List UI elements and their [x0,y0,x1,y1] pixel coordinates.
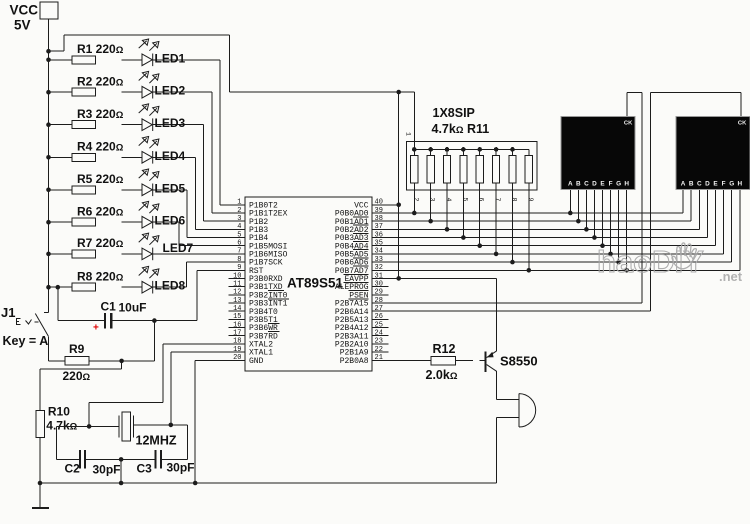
svg-text:11: 11 [233,280,241,288]
svg-text:5: 5 [461,198,468,202]
resistor R7 220 [72,236,124,258]
crystal X1 12MHZ [119,412,177,448]
svg-text:4: 4 [445,198,452,202]
svg-text:1X8SIP: 1X8SIP [433,106,475,120]
node junction rail row 2 [46,90,51,95]
wire pin 20 GND to ground rail [195,360,245,483]
svg-text:10: 10 [233,272,241,280]
svg-text:13: 13 [233,297,241,305]
node junction pin 31 [396,276,401,281]
node junction display1 pin B [576,219,581,224]
transistor Q1 S8550 [486,351,538,372]
svg-text:.net: .net [719,269,743,284]
wire pin 19 XTAL1 to crystal right [171,352,245,425]
wire P0.5/AD5 bus row [372,183,724,254]
svg-text:6: 6 [478,198,485,202]
wire C1 to RST pin 9 [112,270,245,320]
svg-text:5V: 5V [14,18,31,33]
svg-text:Key = A: Key = A [3,334,49,348]
svg-text:220Ω: 220Ω [63,369,91,383]
svg-text:18: 18 [233,338,241,346]
wire R12 to Q1 base [455,359,485,361]
node junction R11 pin 5 [461,235,466,240]
svg-text:3: 3 [429,198,436,202]
display U3 (8-segment module) [676,117,750,190]
node junction R9/R10 [119,359,124,364]
svg-text:9: 9 [527,198,534,202]
svg-text:H: H [624,180,629,187]
node junction rail row 6 [46,220,51,225]
svg-text:LED4: LED4 [155,149,186,163]
svg-text:2: 2 [237,207,241,215]
wire P0.3/AD3 bus row [372,183,707,238]
svg-text:F: F [722,180,726,187]
svg-text:VCC: VCC [10,3,39,18]
svg-text:E: E [600,180,605,187]
node junction C1/R9 [152,318,157,323]
node junction display1 pin D [592,235,597,240]
svg-text:B: B [576,180,581,187]
resistor R1 220 [72,42,124,64]
svg-text:20: 20 [233,354,241,362]
wire pin 21 to R12 [372,359,431,361]
svg-text:A: A [568,180,573,187]
switch J1 (Key = A) [1,305,49,361]
LED LED2 [139,71,186,98]
svg-text:GND: GND [249,357,264,366]
svg-text:3: 3 [237,215,241,223]
svg-text:R10: R10 [48,405,70,419]
node junction crystal right [169,423,174,428]
resistor R5 220 [72,172,124,194]
node junction rail row 3 [46,122,51,127]
svg-text:R9: R9 [69,342,85,356]
node junction ground rail C2/C3 [119,481,124,486]
node junction R11 pin 9 [527,268,532,273]
svg-text:C: C [584,180,589,187]
svg-text:10uF: 10uF [119,301,147,315]
wire rail to C1 [58,287,104,320]
resistor R4 220 [72,140,124,162]
svg-text:34: 34 [375,248,383,256]
wire pin 27 to display U3 CK [372,92,741,311]
svg-text:31: 31 [375,272,383,280]
wire C2 to ground junction [85,458,121,460]
wire LED7 row to pin 7 [49,253,246,255]
wire J1 to R9 [49,360,65,362]
svg-text:A: A [681,180,686,187]
svg-text:28: 28 [375,297,383,305]
svg-text:27: 27 [375,305,383,313]
power symbol VCC 5V [10,2,59,33]
svg-text:9: 9 [237,264,241,272]
svg-text:30pF: 30pF [93,463,121,477]
node junction R11 pin 2 [412,211,417,216]
wire P0.0/AD0 bus row [372,183,683,213]
svg-text:35: 35 [375,240,383,248]
svg-text:LED1: LED1 [155,51,186,65]
svg-text:12: 12 [233,289,241,297]
node junction R11 pin 3 [428,219,433,224]
svg-text:LED2: LED2 [155,84,186,98]
svg-text:15: 15 [233,313,241,321]
svg-text:haoDIY: haoDIY [597,244,704,279]
svg-text:24: 24 [375,330,383,338]
resistor R12 2.0k [426,342,458,382]
LED LED4 [139,137,186,164]
svg-text:R4 220Ω: R4 220Ω [77,140,124,154]
svg-text:C2: C2 [65,462,81,476]
svg-text:6: 6 [237,240,241,248]
node junction display1 pin C [584,227,589,232]
svg-text:22: 22 [375,346,383,354]
svg-text:39: 39 [375,207,383,215]
LED LED3 [139,104,186,131]
svg-text:19: 19 [233,346,241,354]
svg-text:23: 23 [375,338,383,346]
svg-text:G: G [729,180,734,187]
svg-text:16: 16 [233,321,241,329]
svg-text:4.7kΩ R11: 4.7kΩ R11 [432,122,490,136]
capacitor C3 30pF [137,450,195,475]
svg-text:32: 32 [375,264,383,272]
wire P0.4/AD4 bus row [372,183,716,246]
svg-text:5: 5 [237,231,241,239]
svg-text:37: 37 [375,223,383,231]
wire LED6 row to pin 6 [49,222,246,246]
wire LED2 row to pin 2 [49,92,246,213]
svg-text:30: 30 [375,280,383,288]
wire VCC rail (left vertical) [48,19,50,312]
wire buzzer to ground rail [497,417,519,483]
resistor R6 220 [72,204,124,226]
svg-text:2.0kΩ: 2.0kΩ [426,368,458,382]
svg-text:R2 220Ω: R2 220Ω [77,74,124,88]
svg-text:4: 4 [237,223,241,231]
op-amp U1 AT89S51 body [245,197,372,371]
node junction rail row 1 [46,58,51,63]
node junction display1 pin E [600,243,605,248]
node junction R11 pin 4 [445,227,450,232]
svg-text:D: D [705,180,710,187]
wire LED4 row to pin 4 [49,157,246,229]
svg-text:LED7: LED7 [163,241,194,255]
display U2 (8-segment module) [561,117,635,190]
LED LED7 [139,233,194,260]
wire C2/C3 junction to ground rail [120,459,122,483]
svg-text:7: 7 [237,248,241,256]
svg-text:30pF: 30pF [167,461,195,475]
wire Q1 collector to buzzer [497,371,519,399]
svg-text:R6 220Ω: R6 220Ω [77,204,124,218]
LED LED8 [139,266,186,293]
svg-text:CK: CK [624,121,633,127]
wire C3 left to junction [121,458,155,460]
svg-text:40: 40 [375,199,383,207]
node junction VCC bus [396,90,401,95]
U1 left pin name labels [249,201,289,365]
wire LED3 row to pin 3 [49,125,246,221]
svg-text:8: 8 [237,256,241,264]
svg-text:33: 33 [375,256,383,264]
node junction ground rail pin20 [193,481,198,486]
svg-text:1: 1 [237,199,241,207]
wire R9 to C1/RST node [89,321,155,361]
wire VCC to pin 40 and pin 31 (EA/VPP) [372,92,399,278]
node junction crystal left [87,424,92,429]
node junction R11 pin 6 [477,243,482,248]
svg-text:R8 220Ω: R8 220Ω [77,269,124,283]
U1 right pin name labels [335,201,369,365]
svg-text:C3: C3 [137,462,153,476]
svg-text:CK: CK [738,121,747,127]
resistor R3 220 [72,107,124,129]
svg-text:R5 220Ω: R5 220Ω [77,172,124,186]
svg-text:R3 220Ω: R3 220Ω [77,107,124,121]
svg-text:25: 25 [375,321,383,329]
svg-text:D: D [592,180,597,187]
node junction pin 40 [396,203,401,208]
svg-text:21: 21 [375,354,383,362]
svg-text:1: 1 [405,132,412,136]
wire P0.7/AD7 bus row [372,183,740,270]
wire P0.1/AD1 bus row [372,183,691,221]
wire EA/VPP row to Q1 emitter [372,278,497,350]
capacitor C2 30pF [65,450,121,476]
wire VCC top bus to R11 pin 1 [49,35,415,149]
svg-text:38: 38 [375,215,383,223]
node junction rail row 7 [46,252,51,257]
node VCC tap junction [46,49,51,54]
svg-text:J1: J1 [1,305,15,320]
node junction display1 pin H [624,268,629,273]
svg-text:R7 220Ω: R7 220Ω [77,236,124,250]
node junction ground rail left [38,481,43,486]
resistor R8 220 [72,269,124,291]
svg-text:+: + [93,323,99,334]
svg-text:G: G [616,180,621,187]
wire pin 18 XTAL2 to crystal left [89,344,245,427]
ground [32,483,49,508]
svg-text:S8550: S8550 [500,354,538,369]
svg-text:E: E [713,180,718,187]
node junction display1 pin F [608,252,613,257]
svg-text:8: 8 [510,198,517,202]
svg-text:LED3: LED3 [155,116,186,130]
svg-text:12MHZ: 12MHZ [136,434,177,448]
wire junction to R10 [40,361,122,410]
node junction R11 pin 8 [510,260,515,265]
resistor R10 4.7k [36,405,78,438]
svg-text:26: 26 [375,313,383,321]
wire LED5 row to pin 5 [49,190,246,238]
wire LED8 row to pin 8 [49,262,246,287]
wire P0.6/AD6 bus row [372,183,732,262]
node junction rail row 4 [46,155,51,160]
node junction display1 pin A [568,211,573,216]
svg-text:17: 17 [233,330,241,338]
wire pin 28 to display U2 CK [372,92,642,303]
wire crystal left net [57,426,120,459]
svg-text:36: 36 [375,231,383,239]
buzzer LS1 [519,394,536,427]
node junction R8 row / C1 [56,285,61,290]
LED LED6 [139,201,186,228]
node junction C2/C3 [119,457,124,462]
svg-text:R12: R12 [433,342,456,356]
svg-text:LED5: LED5 [155,181,186,195]
svg-text:H: H [737,180,742,187]
capacitor C1 10uF (polarized) [93,300,147,334]
wire crystal right net [134,425,188,460]
resistor R9 220 [63,342,91,383]
svg-text:F: F [609,180,613,187]
U1 pin numbers [233,199,383,362]
svg-text:LED8: LED8 [155,279,186,293]
resistor network R11 1X8SIP 4.7k [405,106,538,202]
svg-text:4.7kΩ: 4.7kΩ [46,419,77,433]
node junction display1 pin G [616,260,621,265]
svg-text:P2B0A8: P2B0A8 [340,357,369,366]
U1 unconnected pin stubs [229,278,389,352]
svg-text:B: B [689,180,694,187]
wire ground rail [40,482,497,484]
node junction rail row 8 [46,285,51,290]
node junction R11 pin 7 [494,252,499,257]
svg-text:R1 220Ω: R1 220Ω [77,42,124,56]
LED LED1 [139,39,186,66]
svg-text:C1: C1 [101,300,117,314]
wire R10 to ground rail [39,438,41,483]
node junction rail row 5 [46,188,51,193]
svg-text:2: 2 [412,198,419,202]
svg-text:LED6: LED6 [155,214,186,228]
wire P0.2/AD2 bus row [372,183,699,229]
wire LED1 row to pin 1 [49,60,246,205]
svg-text:C: C [697,180,702,187]
LED LED5 [139,169,186,196]
resistor R2 220 [72,74,124,96]
svg-text:14: 14 [233,305,241,313]
svg-text:7: 7 [494,198,501,202]
svg-text:29: 29 [375,289,383,297]
